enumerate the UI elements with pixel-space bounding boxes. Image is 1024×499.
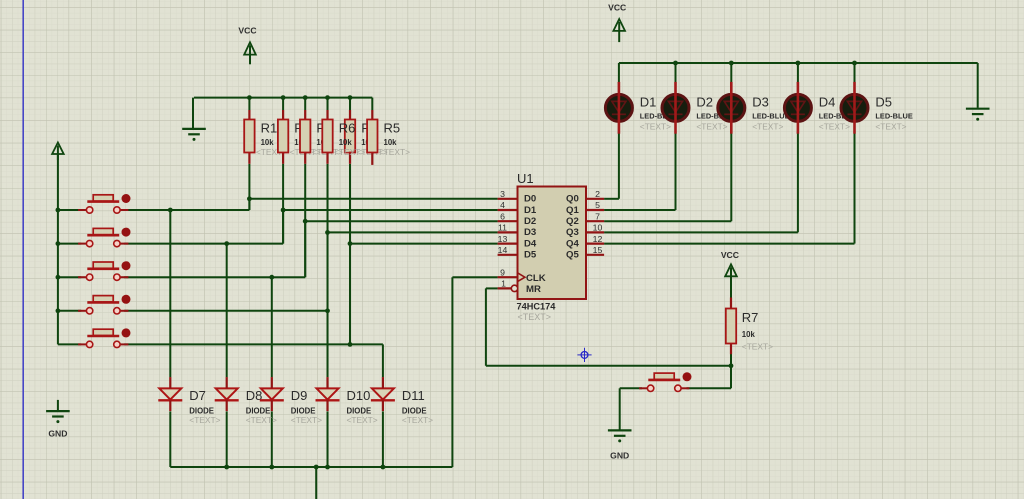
svg-text:MR: MR [526,284,541,295]
button SW2 [78,243,87,245]
junction: R5 on net D4 [348,241,353,246]
svg-text:R5: R5 [384,120,401,135]
wire: node down to button [730,366,732,389]
wire: D11 to diode bus [382,411,384,467]
wire: D4 anode from bus [797,63,799,85]
junction: bus at R2 [281,95,286,100]
svg-text:<TEXT>: <TEXT> [334,147,365,157]
svg-text:VCC: VCC [238,26,256,36]
svg-text:10k: 10k [384,138,398,147]
wire: R1 bottom lead [248,164,250,210]
svg-text:D4: D4 [524,238,537,249]
svg-text:D1: D1 [524,205,537,216]
svg-text:D10: D10 [347,388,371,403]
power arrow (left button bus) [52,143,64,155]
wire: bus drop to ground [192,98,194,128]
junction: row4/D10 [325,308,330,313]
junction: bus D10 [325,465,330,470]
junction: bus at R1 [247,95,252,100]
wire: D1 anode from bus [618,63,620,85]
wire: LED bus to ground [977,63,979,108]
svg-text:D2: D2 [696,94,713,109]
wire: row 2 horizontal [124,243,283,245]
resistor R7 body [726,309,736,344]
resistor R7 bottom red lead [730,344,732,355]
svg-text:Q2: Q2 [566,216,579,227]
wire: row 5 horizontal [124,343,383,345]
wire: net D0 to pin 3 [249,198,497,200]
wire: net Q3 pin 10 [604,231,798,233]
svg-text:GND: GND [48,429,67,439]
wire: net D3 to pin 11 [328,231,498,233]
svg-text:LED-BLUE: LED-BLUE [875,111,912,120]
svg-text:Q0: Q0 [566,194,579,205]
svg-text:74HC174: 74HC174 [517,302,557,312]
wire: row4 col through D3 down to D10 [327,232,329,377]
svg-text:12: 12 [593,234,603,244]
svg-text:R6: R6 [339,120,356,135]
ground (bottom left) [46,410,70,412]
svg-text:D5: D5 [524,250,537,261]
svg-text:5: 5 [595,200,600,210]
junction: R7 bottom node [729,363,734,368]
junction: bus at R5 [348,95,353,100]
junction: row5/R5 [348,342,353,347]
svg-text:3: 3 [500,189,505,199]
svg-text:<TEXT>: <TEXT> [742,342,773,352]
junction: R4 on net D3 [325,230,330,235]
wire: D11 column [382,344,384,377]
wire: clock vertical [451,277,453,467]
wire: D3 anode from bus [730,63,732,85]
svg-text:Q1: Q1 [566,205,579,216]
junction: row3/D9 [269,275,274,280]
button SW4 [78,310,87,312]
button SW1 [78,209,87,211]
wire: resistor top bus [194,97,372,99]
junction: left bus row 3 [56,275,61,280]
wire: R5 bottom lead [349,164,351,244]
svg-text:D11: D11 [402,388,425,403]
wire: net D1 to pin 4 [283,209,498,211]
power arrow VCC (R7) [725,264,737,276]
svg-text:10k: 10k [261,138,275,147]
svg-text:<TEXT>: <TEXT> [402,415,433,425]
wire: R top lead col 5 [349,98,351,110]
svg-text:D3: D3 [524,227,536,238]
wire: D1 cathode down to Q0 [618,132,620,199]
junction: LED bus [796,61,801,66]
wire: row 4 bus to button [58,310,81,312]
svg-text:1: 1 [501,279,506,289]
wire: D8 column [226,244,228,378]
svg-text:<TEXT>: <TEXT> [518,312,552,322]
junction: R1 on net D0 [247,196,252,201]
junction: bus at R4 [325,95,330,100]
wire: net D4 to pin 13 [350,243,498,245]
wire: D4 cathode down to Q3 [797,132,799,233]
ground (top left) [182,128,206,130]
wire: R5 col down to row5 [349,244,351,345]
svg-text:13: 13 [498,234,508,244]
wire: net Q0 pin 2 [604,198,619,200]
svg-text:D2: D2 [524,216,536,227]
junction: bus stub [314,465,319,470]
wire: left button bus vertical [57,154,59,344]
wire: R2 bottom lead [282,164,284,244]
svg-text:7: 7 [595,211,600,221]
wire: D5 anode from bus [854,63,856,85]
svg-text:14: 14 [498,245,508,255]
ground (button) [608,429,632,431]
svg-text:CLK: CLK [526,273,546,284]
wire: row2 jog up to D1 [282,210,284,244]
wire: row1 jog up to D0 [248,199,250,210]
wire: button2 left to gnd [620,387,642,389]
origin marker [577,348,591,362]
wire: D2 cathode down to Q1 [675,132,677,210]
junction: R3 on net D2 [303,219,308,224]
junction: LED bus [852,61,857,66]
wire: net D2 to pin 6 [305,220,497,222]
wire: net Q2 pin 7 [604,220,731,222]
wire: R3 bottom lead [304,164,306,277]
wire: row 5 bus to button [58,343,81,345]
wire: diode bus [170,466,452,468]
junction: R2 on net D1 [281,208,286,213]
button SW5 [78,343,87,345]
svg-text:VCC: VCC [608,3,626,13]
button SW6 (clock) [639,387,648,389]
svg-text:VCC: VCC [721,250,739,260]
wire: net Q4 pin 12 [604,243,854,245]
wire: row 3 horizontal [124,276,305,278]
svg-text:6: 6 [500,211,505,221]
svg-text:D0: D0 [524,194,536,205]
resistor R7 top red lead [730,298,732,309]
junction: left bus row 2 [56,241,61,246]
wire: R top lead col 6 [371,98,373,110]
wire: MR vertical [485,288,487,365]
junction: LED bus [729,61,734,66]
svg-text:<TEXT>: <TEXT> [875,121,906,131]
wire: D5 cathode down to Q4 [854,132,856,244]
junction: bus D9 [269,465,274,470]
junction: bus at R3 [303,95,308,100]
svg-text:D7: D7 [189,388,206,403]
svg-text:GND: GND [610,450,629,460]
svg-text:R1: R1 [261,120,278,135]
wire: R top lead col 4 [327,98,329,110]
junction: LED bus [673,61,678,66]
wire: row 1 bus to button [58,209,81,211]
wire: node to button right [687,387,732,389]
wire: net Q1 pin 5 [604,209,675,211]
svg-text:D4: D4 [819,94,836,109]
ground (top right) [966,108,990,110]
junction: left bus row 1 [56,208,61,213]
wire: D7 column [169,210,171,377]
junction: row2/D8 [224,241,229,246]
svg-text:<TEXT>: <TEXT> [819,121,850,131]
svg-text:<TEXT>: <TEXT> [696,121,727,131]
svg-text:2: 2 [595,189,600,199]
wire: row 1 horizontal [124,209,249,211]
svg-text:10k: 10k [742,330,756,339]
wire: D2 anode from bus [675,63,677,85]
wire: MR horizontal to R7 [486,365,731,367]
wire: clock to pin 9 [452,276,497,278]
wire: R top lead col 3 [304,98,306,110]
wire: row 3 bus to button [58,276,81,278]
wire: D7 to diode bus [169,411,171,467]
svg-text:<TEXT>: <TEXT> [246,415,277,425]
svg-text:<TEXT>: <TEXT> [640,121,671,131]
wire: stub to sheet bottom [315,467,317,499]
wire: R4 bottom lead [327,164,329,233]
svg-text:Q5: Q5 [566,250,579,261]
wire: row3 jog up to D2 [304,221,306,277]
IC U1 74HC174 body [518,187,587,300]
wire: R7 bottom to node [730,354,732,366]
wire: D9 column [271,277,273,377]
svg-text:Q3: Q3 [566,227,579,238]
wire: D3 cathode down to Q2 [730,132,732,222]
sheet border (blue) [22,0,24,499]
svg-text:Q4: Q4 [566,238,579,249]
svg-text:D3: D3 [752,94,769,109]
wire: MR to pin 1 [486,287,498,289]
svg-text:<TEXT>: <TEXT> [347,415,378,425]
button SW3 [78,276,87,278]
svg-text:D9: D9 [291,388,308,403]
svg-text:D1: D1 [640,94,657,109]
wire: D9 to diode bus [271,411,273,467]
wire: D8 to diode bus [226,411,228,467]
junction: row1/D7 [168,208,173,213]
wire: gnd2 drop [619,388,621,429]
svg-text:10: 10 [593,223,603,233]
power arrow VCC (LED bus) [613,19,625,31]
wire: LED top bus [619,62,978,64]
svg-text:U1: U1 [517,171,534,186]
power arrow VCC (resistor bus) [244,42,256,54]
junction: left bus row 4 [56,308,61,313]
junction: bus D11 [381,465,386,470]
wire: floating gnd stem [57,400,59,410]
svg-text:<TEXT>: <TEXT> [379,147,410,157]
svg-text:10k: 10k [339,138,353,147]
svg-text:D5: D5 [875,94,892,109]
svg-text:15: 15 [593,245,603,255]
wire: row 4 horizontal [124,310,327,312]
svg-text:4: 4 [500,200,505,210]
svg-text:<TEXT>: <TEXT> [189,415,220,425]
svg-text:<TEXT>: <TEXT> [752,121,783,131]
svg-text:R7: R7 [742,310,759,325]
wire: R top lead col 2 [282,98,284,110]
wire: D10 to diode bus [327,411,329,467]
wire: R top lead col 1 [248,98,250,110]
svg-text:<TEXT>: <TEXT> [291,415,322,425]
svg-text:11: 11 [498,223,507,233]
wire: row 2 bus to button [58,243,81,245]
junction: bus D8 [224,465,229,470]
svg-text:9: 9 [500,267,505,277]
